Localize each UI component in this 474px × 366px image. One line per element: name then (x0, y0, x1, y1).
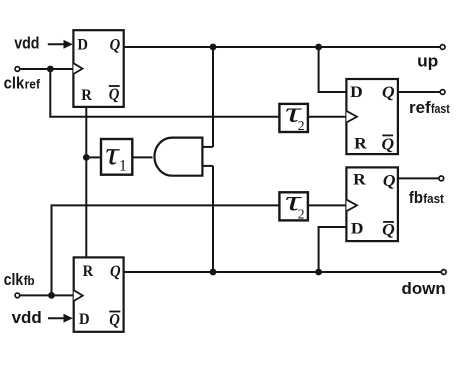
svg-text:D: D (351, 220, 364, 237)
node clkfb input terminal (15, 293, 74, 298)
node junction clkfb (48, 292, 55, 299)
wire AND top input stub (202, 146, 213, 148)
svg-text:Q: Q (109, 85, 120, 104)
svg-text:Q: Q (109, 310, 120, 329)
svg-text:fast: fast (431, 102, 451, 116)
svg-text:Q: Q (382, 83, 395, 102)
wire bottom net: FF2 Q to down output (124, 271, 441, 273)
node junction top net / AND input (210, 44, 217, 51)
svg-text:Q: Q (110, 35, 121, 54)
flip-flop FF4 (fbfast) (346, 167, 398, 241)
svg-text:fb: fb (24, 274, 35, 288)
node fbfast output terminal (439, 176, 444, 181)
node reffast output terminal (440, 90, 445, 95)
wire clkfb to tau2b: up then right (52, 205, 280, 295)
svg-text:D: D (350, 84, 363, 101)
wire clkref to tau2a: down then right (50, 69, 279, 117)
svg-text:R: R (81, 87, 92, 104)
svg-text:2: 2 (298, 206, 305, 221)
wire tau1 to AND gate output (132, 156, 152, 158)
node up output terminal (440, 45, 445, 50)
svg-text:fast: fast (423, 192, 444, 206)
flip-flop FF2 (D=vdd, clk=clkfb, outputs down) (74, 257, 124, 331)
vdd supply arrow bottom (48, 314, 73, 323)
wire bottom net up to AND bottom input (212, 166, 214, 272)
wire top net: FF1 Q to up output (124, 46, 440, 48)
flip-flop FF3 (reffast) (346, 79, 398, 154)
flip-flop FF1 (D=vdd, clk=clkref, outputs up) (73, 30, 123, 107)
svg-text:down: down (402, 279, 446, 298)
delay tau1 (101, 136, 132, 175)
wire top net to FF3 D input (319, 47, 347, 92)
svg-text:Q: Q (382, 135, 395, 154)
svg-text:ref: ref (409, 98, 431, 117)
svg-text:fb: fb (409, 188, 423, 207)
node clkref input terminal (15, 67, 73, 72)
wire tau1 input from reset net (86, 156, 101, 158)
node junction reset/tau1 (83, 154, 90, 161)
vdd supply arrow top (48, 40, 73, 49)
delay tau2 (ref path) (279, 97, 308, 133)
svg-text:Q: Q (383, 171, 396, 190)
delay tau2 (fb path) (279, 186, 308, 222)
svg-text:D: D (79, 311, 90, 328)
svg-text:Q: Q (110, 262, 121, 281)
svg-text:R: R (353, 172, 366, 189)
node junction top net / FF3 D (315, 44, 322, 51)
node junction clkref (47, 66, 54, 73)
wire FF3 Q to reffast output (398, 91, 440, 93)
svg-text:R: R (354, 136, 367, 153)
svg-text:clk: clk (4, 74, 25, 93)
node down output terminal (441, 270, 446, 275)
svg-text:ref: ref (25, 78, 41, 92)
wire bottom net to FF4 D input (319, 227, 347, 272)
AND gate U5 (reset logic, faces left) (154, 138, 202, 176)
svg-text:1: 1 (119, 158, 127, 175)
svg-text:D: D (77, 36, 88, 53)
wire tau2a output to FF3 clock (308, 116, 347, 118)
svg-text:R: R (83, 263, 94, 280)
svg-text:2: 2 (298, 118, 305, 133)
svg-text:τ: τ (105, 136, 120, 172)
node junction bottom net / FF4 D (315, 269, 322, 276)
wire FF4 Q to fbfast output (398, 177, 439, 179)
svg-text:vdd: vdd (14, 34, 39, 53)
svg-text:Q: Q (382, 220, 395, 239)
wire reset net: FF1 R down to FF2 R (85, 107, 87, 258)
svg-text:up: up (417, 52, 438, 71)
wire AND bottom input stub (202, 165, 213, 167)
svg-text:vdd: vdd (12, 308, 42, 327)
wire tau2b output to FF4 clock (308, 204, 347, 206)
svg-text:clk: clk (4, 270, 24, 289)
wire top net down to AND top input (212, 47, 214, 147)
node junction bottom net / AND input (210, 269, 217, 276)
